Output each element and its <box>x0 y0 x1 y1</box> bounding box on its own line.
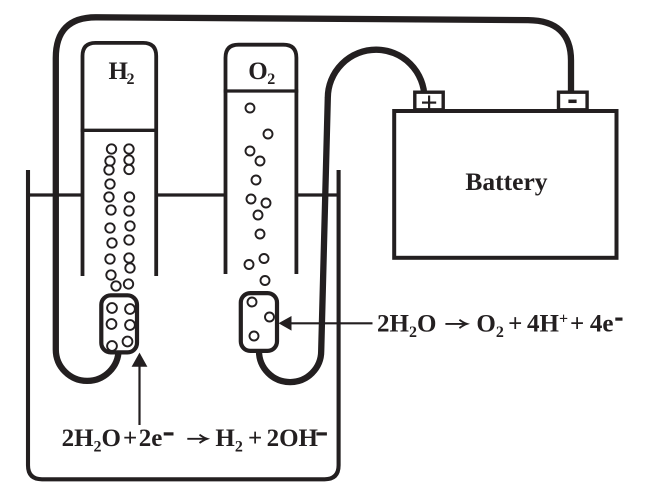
svg-text:+: + <box>248 425 262 452</box>
svg-text:2: 2 <box>127 71 135 88</box>
svg-text:4H+: 4H+ <box>527 310 568 337</box>
O2 test tube <box>226 45 297 274</box>
H2 bubbles <box>104 144 134 290</box>
arrow to H2 electrode <box>132 353 148 425</box>
svg-text:2e: 2e <box>139 425 163 452</box>
svg-text:H2: H2 <box>215 425 242 456</box>
arrow to O2 electrode <box>279 316 373 331</box>
svg-text:4e: 4e <box>590 310 614 337</box>
svg-text:2H2O: 2H2O <box>62 425 121 456</box>
H2 tube water line <box>81 129 158 132</box>
O2 bubbles <box>245 104 273 286</box>
cathode reaction equation <box>62 425 327 456</box>
O2 electrode holes <box>248 298 275 341</box>
svg-text:+: + <box>123 425 137 452</box>
svg-text:2: 2 <box>267 71 275 88</box>
wire from O2 electrode to positive terminal <box>259 50 424 382</box>
svg-text:+: + <box>570 310 584 337</box>
svg-text:O2: O2 <box>476 310 503 341</box>
minus sign <box>568 100 576 104</box>
negative terminal <box>559 92 588 110</box>
svg-text:Battery: Battery <box>465 167 547 196</box>
svg-text:+: + <box>508 310 522 337</box>
beaker container <box>28 170 339 479</box>
anode reaction equation <box>377 310 623 341</box>
wire from H2 electrode to negative terminal <box>56 17 571 381</box>
svg-text:2OH: 2OH <box>267 425 319 452</box>
svg-text:O: O <box>248 58 267 85</box>
battery body <box>394 111 616 258</box>
O2 electrode <box>241 293 277 351</box>
svg-text:H: H <box>109 58 129 85</box>
water level left segment <box>28 193 84 196</box>
H2 electrode holes <box>107 303 135 351</box>
label O2 <box>248 58 275 88</box>
svg-text:2H2O: 2H2O <box>377 310 436 341</box>
label H2 <box>109 58 135 88</box>
plus sign <box>422 96 436 110</box>
water level right segment <box>295 193 339 196</box>
H2 electrode <box>101 295 137 352</box>
O2 tube water line <box>224 89 299 92</box>
H2 test tube <box>83 43 157 276</box>
water level middle segment <box>155 193 227 196</box>
positive terminal <box>415 92 443 110</box>
